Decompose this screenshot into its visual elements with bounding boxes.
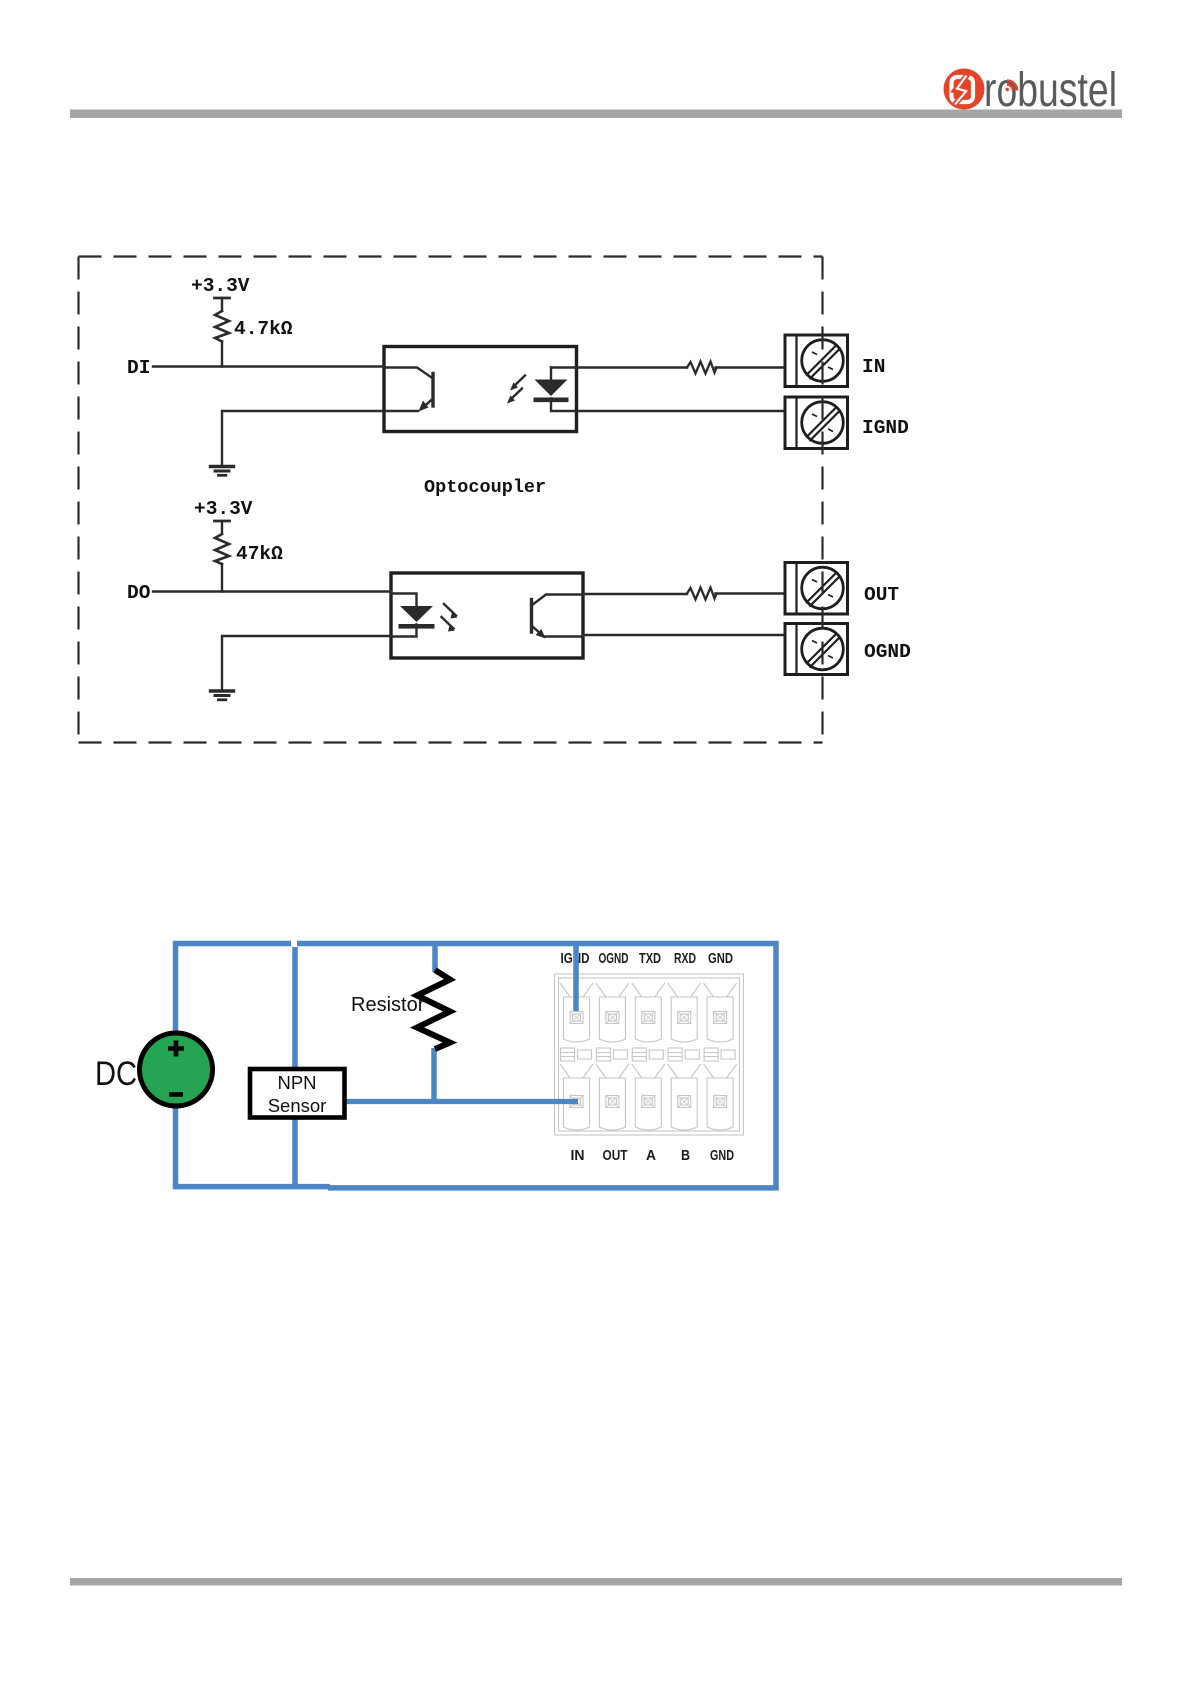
LED D2 cathode bar <box>399 624 435 629</box>
Q2 emitter arrowhead <box>536 629 546 639</box>
DC source <box>140 1033 213 1106</box>
wire U2 lower-left to ground <box>222 636 391 690</box>
svg-text:4.7kΩ: 4.7kΩ <box>234 318 293 340</box>
light arrows out of D2 <box>444 604 456 616</box>
svg-text:DC: DC <box>95 1055 137 1093</box>
wire to terminal OUT <box>716 592 786 594</box>
svg-text:Resistor: Resistor <box>351 994 425 1016</box>
wire resistor bottom to IN wire <box>431 1048 437 1102</box>
power rail +3.3V tap (top) <box>215 297 230 300</box>
light arrow heads U1 <box>510 383 518 391</box>
transistor Q2 collector <box>532 595 584 606</box>
wire mid vertical <box>292 947 298 1187</box>
svg-text:IN: IN <box>862 356 885 378</box>
wire to terminal IN <box>716 366 786 368</box>
optocoupler U1 box <box>384 347 577 432</box>
optocoupler U2 box <box>391 573 583 658</box>
pin column labels (top row) <box>561 951 734 967</box>
pin cells top and bottom rows <box>560 983 593 1130</box>
LED D2 triangle <box>400 606 433 622</box>
ground GND2 <box>211 689 234 692</box>
terminal OGND <box>785 624 848 675</box>
svg-text:TXD: TXD <box>639 951 661 967</box>
wire U2 to series resistor <box>583 593 687 595</box>
terminal IN <box>785 335 848 387</box>
wire resistor top stub <box>432 944 438 973</box>
svg-text:A: A <box>646 1148 656 1164</box>
svg-text:GND: GND <box>708 951 733 967</box>
dashed enclosure border right (over terminals) <box>821 257 823 743</box>
pin labels (bottom row) <box>571 1148 735 1164</box>
wire U1 to IGND <box>577 410 786 412</box>
LED D1 cathode bar <box>534 397 569 402</box>
LED D2 leads <box>391 594 417 637</box>
series resistor on IN line <box>687 362 717 374</box>
light arrows into Q1 <box>513 376 525 388</box>
transistor Q2 emitter <box>532 626 543 636</box>
NPN sensor box <box>250 1069 345 1118</box>
wire U1 top lead internal <box>384 368 432 378</box>
svg-text:DI: DI <box>127 357 150 379</box>
robustel logo mark <box>944 69 985 110</box>
svg-text:B: B <box>681 1148 690 1164</box>
transistor Q1 bar <box>431 374 434 407</box>
transistor Q1 emitter <box>422 399 433 409</box>
svg-text:IN: IN <box>571 1148 585 1164</box>
power rail +3.3V tap (bottom) <box>215 520 230 523</box>
robustel wordmark <box>984 64 1117 117</box>
wire NPN sensor to IN pin <box>345 1099 579 1104</box>
svg-text:NPN: NPN <box>277 1072 316 1093</box>
resistor (zigzag) <box>417 970 450 1049</box>
terminal OUT <box>785 563 848 615</box>
wire DO <box>153 590 391 592</box>
svg-text:RXD: RXD <box>674 951 696 967</box>
svg-text:IGND: IGND <box>862 417 909 439</box>
arrowheads <box>400 380 568 639</box>
wire IGND drop <box>573 944 579 1011</box>
wire U2 to OGND <box>583 634 785 636</box>
blue circuit wires <box>176 944 777 1188</box>
wire R1 to DI node <box>221 342 223 367</box>
connector outline <box>555 974 744 1135</box>
header rule <box>70 110 1122 119</box>
svg-text:OUT: OUT <box>603 1148 628 1164</box>
svg-text:47kΩ: 47kΩ <box>236 543 283 565</box>
svg-text:DO: DO <box>127 582 151 604</box>
terminal block drawing (faint) <box>555 974 744 1135</box>
svg-text:robustel: robustel <box>984 64 1117 117</box>
wire U1 to series resistor <box>577 366 688 368</box>
svg-text:OGND: OGND <box>599 951 629 967</box>
svg-text:Optocoupler: Optocoupler <box>424 477 546 498</box>
svg-text:Sensor: Sensor <box>268 1095 327 1116</box>
svg-text:OUT: OUT <box>864 584 899 606</box>
Q1 emitter arrowhead <box>419 401 429 412</box>
wire U1 lower-left to ground <box>222 411 384 465</box>
svg-text:+3.3V: +3.3V <box>191 275 250 297</box>
svg-text:+3.3V: +3.3V <box>194 498 253 520</box>
svg-text:GND: GND <box>710 1148 734 1164</box>
wire R2 to DO node <box>221 564 223 592</box>
svg-text:OGND: OGND <box>864 641 911 663</box>
ground GND1 <box>211 465 234 468</box>
dashed enclosure border top <box>79 255 823 257</box>
resistor R2 47k <box>215 534 229 564</box>
LED D1 leads <box>551 368 577 412</box>
wire loop: top, right, bottom, left <box>176 944 331 1187</box>
footer rule <box>70 1578 1122 1586</box>
transistor Q2 bar <box>530 600 533 633</box>
light arrow heads U2 <box>451 613 458 619</box>
terminal IGND <box>785 397 848 449</box>
dashed enclosure border bottom <box>79 741 823 743</box>
wire U1 emitter lead internal <box>384 410 418 412</box>
dashed enclosure border left <box>77 257 79 743</box>
series resistor on OUT line <box>687 588 717 600</box>
schematic labels <box>127 275 911 663</box>
resistor R1 4.7k <box>215 311 229 342</box>
LED D1 triangle <box>535 380 568 397</box>
wire DI <box>153 365 384 367</box>
